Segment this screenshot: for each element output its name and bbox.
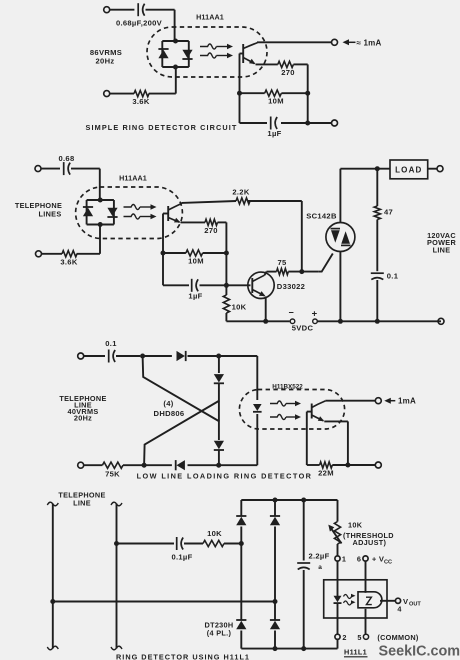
optocoupler U1 H11AA1 dashed outline <box>147 27 267 77</box>
node emitter bottom c3 <box>345 463 350 468</box>
node 10M right c2 <box>224 251 229 256</box>
terminal bottom-right c3 <box>375 462 381 468</box>
resistor 75 <box>277 269 289 275</box>
wire to diode D5 <box>143 355 172 357</box>
wire gate to vout <box>380 600 395 602</box>
label 10M c2 <box>188 257 204 266</box>
label TELEPHONE LINE 40VRMS 20Hz <box>59 394 106 423</box>
bridge right rail c3 <box>218 356 220 465</box>
svg-text:20Hz: 20Hz <box>96 57 115 66</box>
svg-text:75: 75 <box>277 258 287 267</box>
label COMMON <box>377 633 419 642</box>
svg-text:H11AA1: H11AA1 <box>196 13 224 22</box>
svg-text:10M: 10M <box>188 257 204 266</box>
node rail2 tap <box>114 541 119 546</box>
resistor 10M c1 <box>265 90 282 96</box>
label 86VRMS 20Hz <box>90 48 122 66</box>
triac gate lead <box>318 254 333 272</box>
node bridge right mid <box>273 599 278 604</box>
node bridge top c1 <box>173 39 178 44</box>
resistor 270 c1 <box>278 61 294 67</box>
output terminal c1 <box>332 39 338 45</box>
cap branch c4 <box>303 500 305 649</box>
wire 10K to bridge c4 <box>224 543 241 545</box>
diode D6 down <box>214 374 224 383</box>
svg-text:0.1µF: 0.1µF <box>171 553 192 562</box>
label H11AA1 c2 <box>119 174 147 183</box>
phototransistor Q4 c3 <box>312 401 326 421</box>
diode D10 up <box>236 516 246 525</box>
capacitor 1uF c2 <box>192 279 198 292</box>
svg-text:SIMPLE RING DETECTOR CIRCUIT: SIMPLE RING DETECTOR CIRCUIT <box>86 123 238 132</box>
potentiometer 10K threshold <box>328 522 341 545</box>
resistor 270 c2 <box>205 219 217 225</box>
node 10M left c2 <box>161 251 166 256</box>
node 1uF right c1 <box>305 121 310 126</box>
label D33022 <box>277 282 305 291</box>
schmitt gate <box>358 592 382 608</box>
terminal bottom-left c2 <box>36 251 63 257</box>
svg-text:CC: CC <box>384 560 392 566</box>
bridge diagonal A <box>143 356 220 422</box>
svg-text:0.68µF,200V: 0.68µF,200V <box>116 19 163 28</box>
node bridge out top <box>216 354 221 359</box>
resistor 3.6K c2 <box>62 251 77 257</box>
diode D8 left <box>176 460 185 470</box>
svg-text:LOAD: LOAD <box>395 165 422 174</box>
wire 75K to node <box>123 464 144 466</box>
bridge left rail c4 <box>240 500 242 649</box>
node top rail a <box>273 498 278 503</box>
diode D11 up <box>270 516 280 525</box>
optocoupler U4 H11BX522 dashed outline <box>239 390 344 430</box>
wire 10M row c1 <box>240 92 308 94</box>
telephone rail 2 <box>111 502 122 650</box>
svg-text:2: 2 <box>342 633 346 642</box>
light arrows c2 <box>124 204 157 219</box>
svg-text:10K: 10K <box>232 303 247 312</box>
svg-text:+ V: + V <box>372 555 385 564</box>
wire rail2 to cap c4 <box>117 543 175 545</box>
label 3.6K c2 <box>60 258 77 267</box>
pin 4 Vout <box>395 597 421 614</box>
capacitor 0.68uF 200V <box>138 3 174 16</box>
diode D12 up <box>236 620 246 629</box>
svg-text:10M: 10M <box>268 97 284 106</box>
LED D14 in H11L1 <box>334 596 342 603</box>
terminal bottom-left c1 <box>104 91 134 97</box>
capacitor 1uF c1 <box>271 117 277 130</box>
wire 0.1 to bottom <box>376 280 378 321</box>
svg-text:OUT: OUT <box>409 602 421 608</box>
resistor 22M <box>320 462 333 468</box>
svg-text:(COMMON): (COMMON) <box>377 633 419 642</box>
wire to diode D8 <box>144 464 172 466</box>
pin 6 Vcc <box>357 555 392 566</box>
optocoupler U2 H11AA1 dashed outline <box>76 187 183 239</box>
wire pin1 to box <box>337 561 339 596</box>
emitter wire c3 <box>324 421 348 465</box>
svg-text:(4 PL.): (4 PL.) <box>207 629 232 638</box>
supply plus terminal <box>313 319 318 324</box>
wire 1uF row c2 <box>163 284 251 286</box>
wire collector to output c1 <box>257 41 332 43</box>
wire emitter down c2 <box>265 297 267 322</box>
wire collector up to 75 row <box>265 272 277 276</box>
label 0.1 c3 <box>105 339 117 348</box>
pin 2 <box>335 633 347 642</box>
label 47 <box>384 208 393 217</box>
label minus <box>289 308 295 318</box>
node emitter bottom c2 <box>263 319 268 324</box>
svg-text:SC142B: SC142B <box>306 212 337 221</box>
svg-text:0.1: 0.1 <box>387 272 399 281</box>
node 10M right c1 <box>305 91 310 96</box>
node 10M left c1 <box>237 91 242 96</box>
label 5VDC <box>292 324 314 333</box>
svg-text:1mA: 1mA <box>398 397 416 406</box>
wire cap to bridge <box>174 10 176 41</box>
current arrow 1mA c1 <box>343 38 382 47</box>
wire D5 to node <box>188 355 219 357</box>
terminal 1mA c3 <box>375 398 381 404</box>
label TELEPHONE LINES <box>15 201 62 219</box>
label 22M <box>318 469 334 478</box>
node bridge in bottom <box>142 463 147 468</box>
label 10K c2 <box>232 303 247 312</box>
LOAD box <box>390 160 428 179</box>
svg-text:0.68: 0.68 <box>59 154 75 163</box>
node bridge bottom c2 <box>98 222 103 227</box>
capacitor 0.1 c3 <box>109 350 141 363</box>
diode D13 up <box>270 620 280 629</box>
wire 10K to bottom c2 <box>225 313 227 321</box>
wire collector to 2.2K <box>182 201 302 203</box>
wire 1uF row c1 <box>240 122 332 124</box>
top rail c4 <box>241 499 337 501</box>
light arrows c1 <box>200 44 233 59</box>
current arrow 1mA c3 <box>384 397 416 406</box>
label 1uF c2 <box>188 292 202 301</box>
label 2.2K <box>232 188 249 197</box>
resistor 10M c2 <box>186 250 203 256</box>
svg-text:1: 1 <box>342 555 346 564</box>
supply minus terminal <box>290 319 295 324</box>
resistor 2.2K <box>236 198 250 204</box>
svg-text:LINE: LINE <box>73 499 91 508</box>
svg-text:LINE: LINE <box>433 245 451 254</box>
LED D3 up (left) c2 <box>83 207 93 216</box>
bridge right rail2 c4 <box>274 500 276 649</box>
label 3.6K <box>132 97 149 106</box>
phototransistor Q1 c1 <box>243 43 257 65</box>
wire 47 top <box>376 169 378 206</box>
svg-text:H11AA1: H11AA1 <box>119 174 147 183</box>
wire 270 to right rail c1 <box>293 64 307 123</box>
triac MT1 wire <box>339 252 341 322</box>
wire bottom to LED rail c3 <box>219 414 258 465</box>
LED D4 down (right) c2 <box>107 208 117 217</box>
label 2.2uF <box>308 552 329 572</box>
label 10K c4 <box>207 529 222 538</box>
label 75 <box>277 258 287 267</box>
bridge LED square circuit 1 <box>162 41 189 67</box>
svg-text:LINES: LINES <box>39 210 62 219</box>
label 75K <box>105 470 120 479</box>
wire bridge bottom to 3.6K <box>149 67 176 94</box>
svg-text:10K: 10K <box>207 529 222 538</box>
label H11BX522 <box>272 383 303 390</box>
svg-text:+: + <box>312 309 318 320</box>
label DT230H (4 PL.) <box>205 621 234 638</box>
svg-text:1µF: 1µF <box>188 292 202 301</box>
wire pin6 to box <box>365 561 367 593</box>
circuit 1: input terminal top-left <box>104 7 135 13</box>
node bridge in top <box>140 354 145 359</box>
wire pot to pin1 <box>337 544 339 556</box>
light arrows c3 <box>270 401 301 420</box>
svg-text:3.6K: 3.6K <box>60 258 77 267</box>
svg-text:−: − <box>289 308 295 318</box>
svg-text:H11L1: H11L1 <box>344 648 367 657</box>
bottom rail c4 <box>241 648 337 650</box>
bridge diagonal B <box>144 401 219 466</box>
phototransistor Q2 c2 <box>168 203 182 222</box>
svg-text:22M: 22M <box>318 469 334 478</box>
wire emitter to 270 c2 <box>181 221 206 223</box>
capacitor 2.2uF <box>297 563 310 569</box>
H11L1 box <box>324 580 387 618</box>
caption SIMPLE RING DETECTOR CIRCUIT <box>86 123 238 132</box>
label (4) DHD806 <box>154 399 185 418</box>
LED D9 down c3 <box>253 404 262 412</box>
node bridge left mid <box>239 541 244 546</box>
node bridge out bottom <box>216 463 221 468</box>
svg-text:47: 47 <box>384 208 393 217</box>
node rail1 tap <box>50 599 55 604</box>
base rail c3 <box>307 412 312 465</box>
LED D2 down (right side) <box>182 50 192 59</box>
circuit 3: terminal top-left <box>78 353 105 359</box>
wire collector to terminal c3 <box>325 400 375 402</box>
svg-text:DHD806: DHD806 <box>154 409 185 418</box>
svg-text:1µF: 1µF <box>267 129 281 138</box>
node bridge top c2 <box>98 198 103 203</box>
light squiggles H11L1 <box>344 594 356 605</box>
wire gate bottom to pin5 <box>365 609 367 635</box>
label TELEPHONE LINE c4 <box>58 491 105 508</box>
node triac MT1 bottom <box>338 319 343 324</box>
caption RING DETECTOR USING H11L1 <box>116 653 250 660</box>
resistor 10K c4 <box>203 540 224 546</box>
wire cap to 10K c4 <box>184 543 203 545</box>
svg-text:LOW LINE LOADING RING DETECTOR: LOW LINE LOADING RING DETECTOR <box>137 472 313 481</box>
svg-text:75K: 75K <box>105 470 120 479</box>
svg-text:RING DETECTOR USING H11L1: RING DETECTOR USING H11L1 <box>116 653 250 660</box>
watermark SeekIC.com <box>379 644 460 660</box>
bottom rail left c2 <box>226 320 289 322</box>
label 270 c1 <box>281 68 295 77</box>
node base junction c2 <box>224 283 229 288</box>
label 0.1uF <box>171 553 192 562</box>
label 10M c1 <box>268 97 284 106</box>
resistor 3.6K <box>134 91 149 97</box>
triac MT2 wire <box>340 169 390 223</box>
svg-text:5VDC: 5VDC <box>292 324 314 333</box>
triac U3 SC142B <box>326 223 355 252</box>
svg-text:2.2K: 2.2K <box>232 188 249 197</box>
svg-text:2.2µF: 2.2µF <box>308 552 329 561</box>
label 270 c2 <box>204 226 218 235</box>
transistor Q3 D33022 <box>248 272 274 298</box>
svg-text:10K: 10K <box>348 521 363 530</box>
node 0.1 bottom <box>375 319 380 324</box>
pot branch top c4 <box>337 500 339 522</box>
svg-text:ADJUST): ADJUST) <box>353 538 387 547</box>
svg-text:270: 270 <box>204 226 218 235</box>
resistor 75K <box>102 462 123 468</box>
wire emitter to 270 c1 <box>256 63 278 65</box>
wire 47 to 0.1 <box>376 220 378 272</box>
label H11L1 <box>344 648 368 657</box>
terminal LOAD right <box>437 166 443 172</box>
svg-text:(4): (4) <box>163 399 173 408</box>
wire 75 to gate junction <box>288 271 318 273</box>
capacitor 0.1 c2 vertical <box>371 273 384 279</box>
label 1uF c1 <box>267 129 281 138</box>
svg-text:≈ 1mA: ≈ 1mA <box>357 38 382 47</box>
pin 1 <box>335 555 346 564</box>
diode D5 right <box>177 351 186 361</box>
base rail c2 <box>163 214 168 286</box>
wire pin2 to bottom rail <box>337 639 339 648</box>
svg-text:a: a <box>318 564 322 571</box>
wire bridge to 3.6K c2 <box>77 225 100 254</box>
node bottom rail b <box>301 646 306 651</box>
bridge LED square c2 <box>87 200 114 225</box>
wire down to bridge c2 <box>99 169 101 200</box>
bottom rail right c2 <box>317 320 438 322</box>
pin 5 <box>357 633 368 642</box>
node bridge bottom c1 <box>173 65 178 70</box>
node bottom rail a <box>273 646 278 651</box>
terminal bottom-left c3 <box>78 462 103 468</box>
resistor 47 vertical <box>374 206 380 219</box>
label H11AA1 <box>196 13 224 22</box>
wire 2.2K down rail <box>301 201 303 272</box>
diode D7 down <box>214 441 224 450</box>
svg-text:20Hz: 20Hz <box>74 414 92 423</box>
capacitor 0.1uF c4 <box>177 537 183 550</box>
base rail c1 <box>240 54 244 124</box>
label 120VAC POWER LINE <box>427 231 456 254</box>
label 10K THRESHOLD ADJUST <box>343 521 394 547</box>
wire 270 to right rail c2 <box>218 222 227 295</box>
caption LOW LINE LOADING RING DETECTOR <box>137 472 313 481</box>
svg-text:5: 5 <box>357 633 361 642</box>
svg-text:3.6K: 3.6K <box>132 97 149 106</box>
label 0.68uF,200V <box>116 19 163 28</box>
resistor 10K c2 vertical <box>223 295 229 313</box>
wire 10M row c2 <box>163 252 226 254</box>
svg-text:SeekIC.com: SeekIC.com <box>379 644 460 660</box>
terminal bottom-right c1 <box>332 120 338 126</box>
wire box to pin2 <box>337 604 339 634</box>
terminal bottom-right c2 <box>438 318 444 324</box>
label 0.68 c2 <box>59 154 75 163</box>
telephone rail 1 <box>47 502 58 650</box>
label plus <box>312 309 318 320</box>
wire top to LED rail c3 <box>219 356 258 400</box>
node load junction <box>375 166 380 171</box>
label 0.1 c2 <box>387 272 399 281</box>
svg-text:4: 4 <box>397 605 402 614</box>
svg-text:H11BX522: H11BX522 <box>272 383 303 390</box>
wire D8 to node <box>188 464 219 466</box>
svg-text:D33022: D33022 <box>277 282 305 291</box>
wire rail1 to bridge mid <box>53 601 275 603</box>
node top rail b <box>301 498 306 503</box>
svg-text:0.1: 0.1 <box>105 339 117 348</box>
svg-text:270: 270 <box>281 68 295 77</box>
svg-text:6: 6 <box>357 555 361 564</box>
bottom row c3 <box>307 464 376 466</box>
label SC142B <box>306 212 337 221</box>
circuit 2: terminal top-left <box>35 166 60 172</box>
node gate junction <box>299 269 304 274</box>
LED D1 up (left side) <box>158 49 168 58</box>
wire LOAD to terminal <box>428 168 437 170</box>
capacitor 0.68 c2 <box>64 162 100 175</box>
